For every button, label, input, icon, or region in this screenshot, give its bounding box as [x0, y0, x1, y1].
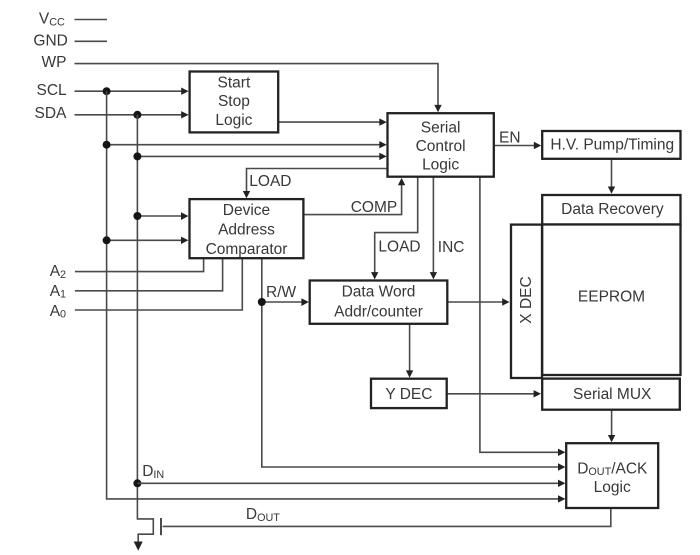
node SDA comparator junction — [133, 212, 141, 220]
wire DIN to DOUT/ACK Logic — [137, 482, 558, 484]
svg-text:Logic: Logic — [422, 156, 459, 173]
svg-text:Serial: Serial — [421, 120, 461, 137]
node SCL comparator junction — [103, 236, 111, 244]
svg-text:GND: GND — [33, 33, 67, 50]
svg-text:Stop: Stop — [218, 93, 250, 110]
pin label WP — [42, 54, 67, 71]
label EN — [499, 130, 521, 147]
wire A2 to comparator — [75, 259, 204, 272]
svg-text:Logic: Logic — [215, 112, 252, 129]
wire Data Word Addr/counter to Y DEC — [409, 324, 411, 371]
svg-text:COMP: COMP — [351, 199, 398, 216]
svg-text:EN: EN — [499, 130, 521, 147]
block Start Stop Logic — [190, 72, 279, 133]
wire SCL tap to Device Address Comparator — [107, 239, 182, 241]
wire DOUT from DOUT/ACK Logic to transistor gate — [163, 508, 611, 526]
svg-text:Comparator: Comparator — [206, 241, 288, 258]
wire INC from Serial Control Logic to Data Word Addr/counter — [432, 177, 434, 273]
wire COMP from Device Address Comparator to Serial Control Logic — [303, 185, 401, 215]
svg-text:LOAD: LOAD — [378, 238, 420, 255]
pin label A1 — [50, 283, 66, 301]
pin label A0 — [50, 303, 66, 321]
svg-text:Start: Start — [218, 75, 251, 92]
svg-text:H.V. Pump/Timing: H.V. Pump/Timing — [550, 136, 674, 153]
label DIN — [142, 463, 164, 481]
wire SCL vertical bus to DOUT/ACK Logic — [107, 91, 559, 499]
wire EN from Serial Control Logic to H.V. Pump/Timing — [494, 145, 535, 147]
label DOUT — [246, 506, 280, 524]
svg-text:Data Recovery: Data Recovery — [561, 201, 664, 218]
node DIN junction — [133, 479, 141, 487]
svg-text:R/W: R/W — [266, 284, 297, 301]
svg-text:Serial MUX: Serial MUX — [573, 386, 652, 403]
label INC — [438, 239, 465, 256]
wire VCC stub — [75, 19, 108, 21]
wire Serial Control Logic to DOUT/ACK Logic — [480, 177, 559, 453]
svg-text:DOUT/ACK: DOUT/ACK — [577, 460, 648, 478]
pin label SCL — [37, 82, 68, 99]
wire R/W from comparator to Data Word Addr/counter and DOUT/ACK — [262, 259, 559, 467]
wire Start Stop Logic to Serial Control Logic — [278, 121, 380, 123]
wire SDA tap to Serial Control Logic — [137, 155, 380, 157]
svg-text:WP: WP — [42, 54, 67, 71]
block Serial MUX — [542, 379, 680, 410]
wire SDA vertical bus to transistor — [136, 115, 138, 520]
node R/W junction — [258, 298, 266, 306]
svg-text:Control: Control — [416, 138, 466, 155]
wire SCL to Start Stop Logic — [75, 90, 182, 92]
wire Serial MUX to DOUT/ACK Logic — [611, 411, 613, 436]
wire GND stub — [75, 40, 108, 42]
label COMP — [351, 199, 398, 216]
node SDA tap junction — [133, 152, 141, 160]
wire LOAD from Serial Control Logic to Data Word Addr/counter — [375, 177, 418, 273]
svg-text:Y DEC: Y DEC — [385, 386, 432, 403]
block Device Address Comparator — [190, 199, 304, 258]
pin label SDA — [35, 105, 68, 122]
wire A0 to comparator — [75, 259, 242, 310]
block EEPROM — [542, 225, 680, 376]
svg-text:EEPROM: EEPROM — [578, 289, 645, 306]
svg-text:Address: Address — [218, 222, 275, 239]
wire SDA tap to Device Address Comparator — [137, 215, 181, 217]
wire SDA to Start Stop Logic — [75, 114, 182, 116]
wire LOAD from Serial Control Logic to Device Address Comparator — [247, 169, 388, 192]
svg-text:SCL: SCL — [37, 82, 68, 99]
pin label VCC — [39, 11, 65, 29]
svg-text:Device: Device — [223, 202, 270, 219]
svg-text:X DEC: X DEC — [518, 276, 535, 323]
node SCL tap junction — [103, 141, 111, 149]
block Y DEC — [371, 379, 447, 408]
label R/W — [266, 284, 297, 301]
block H.V. Pump/Timing — [542, 131, 680, 159]
wire H.V. Pump/Timing to Data Recovery — [611, 160, 613, 188]
node SDA junction — [133, 111, 141, 119]
svg-text:Logic: Logic — [594, 479, 631, 496]
block Data Recovery — [542, 195, 680, 225]
block DOUT/ACK Logic — [566, 443, 658, 508]
label LOAD — [378, 238, 420, 255]
svg-text:Data Word: Data Word — [342, 284, 416, 301]
block Serial Control Logic — [388, 113, 494, 177]
block X DEC — [511, 225, 542, 378]
svg-text:LOAD: LOAD — [249, 173, 291, 190]
svg-text:Addr/counter: Addr/counter — [334, 304, 423, 321]
wire Data Word Addr/counter to X DEC — [447, 301, 503, 303]
node SCL junction — [103, 87, 111, 95]
block Data Word Addr/counter — [310, 281, 448, 324]
wire A1 to comparator — [75, 259, 223, 291]
pin label A2 — [50, 263, 66, 281]
svg-text:SDA: SDA — [35, 105, 68, 122]
label LOAD — [249, 173, 291, 190]
transistor output MOSFET — [137, 519, 153, 542]
wire Y DEC to Serial MUX — [447, 393, 535, 395]
wire WP to Serial Control Logic top — [75, 64, 439, 106]
wire SCL tap to Serial Control Logic — [107, 144, 380, 146]
svg-text:INC: INC — [438, 239, 465, 256]
pin label GND — [33, 33, 67, 50]
